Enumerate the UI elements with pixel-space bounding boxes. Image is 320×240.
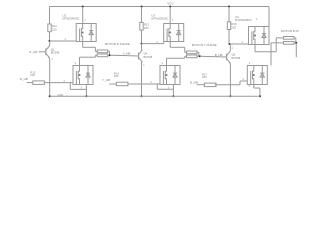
junction tap Y phase <box>199 55 201 57</box>
wire to winding R <box>94 47 96 51</box>
junction tap R phase <box>109 54 111 56</box>
wire tap B down <box>295 43 297 57</box>
wire U5 source to rail <box>172 85 174 97</box>
wire U1 bottom jog <box>70 88 86 90</box>
junction R16 top <box>228 6 230 8</box>
wire gate U3 <box>142 43 164 45</box>
wire gate U4 corner <box>248 43 250 46</box>
svg-text:Y_HB: Y_HB <box>102 78 110 82</box>
wire Q6 base <box>221 56 227 58</box>
svg-text:B_HB: B_HB <box>215 53 223 57</box>
wire U5 gate stub down <box>156 84 158 89</box>
junction U5 source / rail <box>172 95 174 97</box>
svg-text:MTW20N50C: MTW20N50C <box>235 18 252 22</box>
MOSFET U2 MTW20N50C high-side <box>76 24 96 42</box>
wire to U6 drain <box>270 43 272 66</box>
resistor R12 220 <box>33 81 45 85</box>
wire B_HB to R17 <box>197 84 205 86</box>
wire U3 drain <box>169 7 171 24</box>
junction gate node phase3 <box>229 43 231 45</box>
junction U6 source / rail <box>259 95 261 97</box>
wire source right <box>255 51 276 53</box>
svg-text:220: 220 <box>52 28 57 32</box>
wire gate U3 up <box>163 42 165 44</box>
svg-text:220: 220 <box>144 26 149 30</box>
svg-text:MOTOR Y PHASE: MOTOR Y PHASE <box>192 43 217 47</box>
wire U5 drain down <box>166 58 168 65</box>
junction gate node phase2 <box>141 43 143 45</box>
wire U3 source down <box>169 42 171 48</box>
wire Q4 base <box>131 55 139 57</box>
svg-text:220: 220 <box>114 74 119 78</box>
MOSFET U4 MTW20N50C high-side <box>249 27 270 45</box>
svg-text:MOTOR B PHA: MOTOR B PHA <box>281 29 299 33</box>
motor R phase winding <box>95 50 109 57</box>
wire U4 drain from rail end <box>268 7 270 27</box>
wire U1 drain down <box>79 57 81 65</box>
wire U2 source down <box>82 42 84 48</box>
wire U6 source jog <box>254 87 260 89</box>
svg-text:220: 220 <box>202 75 207 79</box>
wire Y_HB to R14 <box>109 83 116 85</box>
wire R14 to U5 gate <box>128 83 160 85</box>
wire U1 gate stub down <box>69 83 71 90</box>
svg-text:B_HB: B_HB <box>190 80 198 84</box>
wire tap to B_HB <box>200 55 221 58</box>
svg-text:R_HB: R_HB <box>20 77 28 81</box>
MOSFET U3 MTW20N50C high-side <box>164 24 184 42</box>
wire to winding Y <box>184 47 186 52</box>
motor B phase winding <box>282 37 296 45</box>
wire R17 right <box>215 84 240 86</box>
junction U2 drain <box>82 6 84 8</box>
wire winding R low <box>94 55 96 57</box>
svg-text:GND: GND <box>58 93 64 97</box>
wire R13 to node <box>141 30 143 43</box>
wire VCC top rail <box>50 6 270 8</box>
wire to U5 drain <box>167 57 185 59</box>
transistor Q4 BC548 <box>139 50 143 63</box>
resistor R11 220 <box>48 24 51 32</box>
wire R11 to node <box>49 32 51 41</box>
wire winding Y low <box>184 56 186 58</box>
wire source to motor Y <box>170 46 185 48</box>
wire Q4 emitter to rail <box>141 62 143 96</box>
wire tap to Y_HB <box>110 54 131 56</box>
wire Q6 emitter to rail <box>229 63 231 96</box>
wire source up <box>275 38 277 52</box>
svg-text:MTW20N50C: MTW20N50C <box>63 17 80 21</box>
svg-text:Y_HB: Y_HB <box>123 52 131 56</box>
wire gate U4 <box>230 43 249 45</box>
junction tap B phase <box>295 42 297 44</box>
svg-text:MOTOR R PHASE: MOTOR R PHASE <box>105 42 130 46</box>
wire to winding B <box>276 37 282 39</box>
wire U6 source to rail <box>259 88 261 96</box>
svg-text:BC548: BC548 <box>144 55 153 59</box>
wire R12 to U1 gate <box>45 82 74 84</box>
junction Q1 emitter / rail <box>49 95 51 97</box>
junction Q4 emitter / rail <box>141 95 143 97</box>
wire U5 bottom jog <box>157 88 173 90</box>
junction VCC / U3 drain <box>169 6 171 8</box>
wire Q1 collector to node <box>49 41 51 46</box>
junction R13 top <box>141 6 143 8</box>
wire R16 to node <box>228 30 230 45</box>
transistor Q6 BC548 <box>227 51 231 64</box>
svg-text:220: 220 <box>30 73 35 77</box>
MOSFET U6 low-side phase3 <box>247 66 267 85</box>
MOSFET U1 low-side phase1 <box>73 66 93 85</box>
junction Q6 emitter / rail <box>229 95 231 97</box>
wire Q1 base <box>39 51 46 53</box>
motor Y phase winding <box>185 51 199 58</box>
wire source to motor <box>83 46 96 48</box>
junction gate node phase1 <box>49 40 51 42</box>
wire gate U2 <box>50 40 77 42</box>
wire R_HB to R12 <box>27 82 33 84</box>
wire U2 drain <box>82 7 84 24</box>
wire ground rail <box>50 95 260 97</box>
svg-text:MTW20N50C: MTW20N50C <box>151 17 168 21</box>
transistor Q1 BC548 <box>46 46 50 59</box>
resistor R13 220 <box>140 22 143 30</box>
wire Q4 collector to node <box>141 44 143 50</box>
svg-text:BC548: BC548 <box>232 56 241 60</box>
wire Q6 collector to node <box>229 44 231 51</box>
svg-text:220: 220 <box>231 25 236 29</box>
junction U1 source / rail <box>85 95 87 97</box>
svg-text:BC548: BC548 <box>51 51 60 55</box>
resistor R17 220 <box>204 83 216 87</box>
wire Q1 emitter to ground rail <box>49 58 51 96</box>
wire rail to R13 <box>141 7 143 23</box>
wire U4 source down <box>254 45 256 52</box>
wire U1 source to rail <box>85 85 87 97</box>
svg-text:R_HB: R_HB <box>29 50 37 54</box>
wire rail to R11 <box>49 7 51 25</box>
svg-text:VCC: VCC <box>167 2 174 6</box>
wire rail to R16 <box>228 7 230 22</box>
resistor R16 220 <box>227 22 230 30</box>
wire R17 up <box>239 81 241 85</box>
wire to U6 gate <box>240 80 247 82</box>
MOSFET U5 low-side phase2 <box>160 66 180 85</box>
wire to U1 drain <box>80 56 96 58</box>
resistor R14 220 <box>116 82 128 86</box>
wire U6 source down <box>253 85 255 89</box>
wire winding B low <box>271 42 282 44</box>
